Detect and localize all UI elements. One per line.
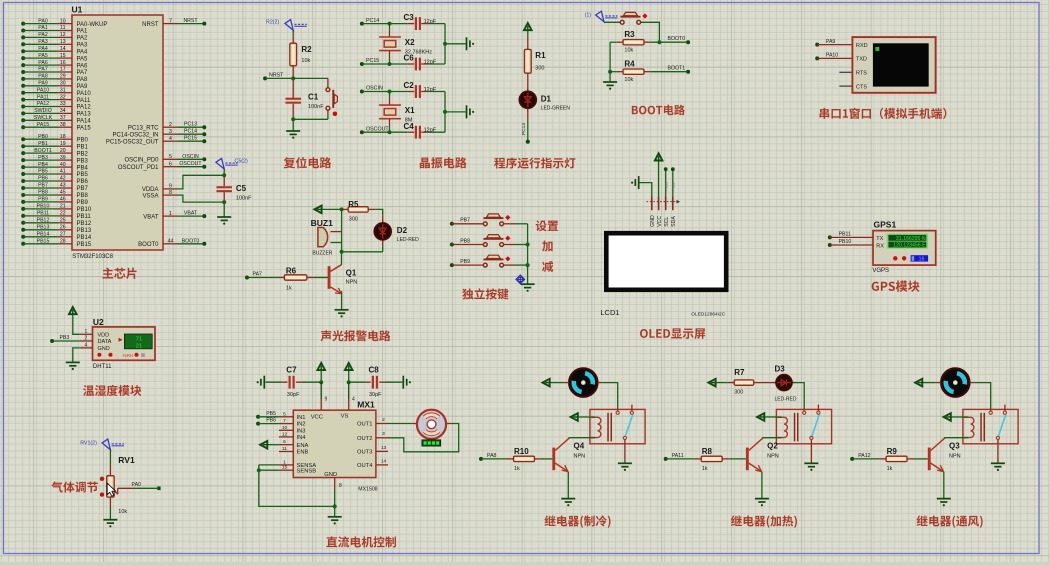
wire R4 left — [610, 71, 617, 73]
pin BOOT1 wire — [21, 151, 25, 155]
svg-text:PB1: PB1 — [38, 141, 48, 147]
net OSCOUT — [178, 166, 205, 168]
OLED pins — [651, 196, 653, 210]
capacitor C3 — [415, 17, 421, 30]
ground Q3 — [937, 499, 951, 502]
wire to ground — [445, 43, 466, 45]
svg-text:PA14: PA14 — [77, 119, 92, 125]
svg-text:PB13: PB13 — [665, 182, 669, 191]
svg-text:R2: R2 — [301, 45, 312, 54]
power arrow VCC — [317, 363, 325, 370]
svg-text:6: 6 — [169, 161, 172, 167]
svg-text:C5(2): C5(2) — [235, 158, 248, 164]
wire C8 right — [379, 381, 385, 383]
svg-text:18: 18 — [60, 134, 66, 140]
svg-text:PC13: PC13 — [521, 123, 527, 135]
capacitor C7 — [289, 376, 295, 389]
svg-text:PA4: PA4 — [77, 49, 89, 55]
capacitor C4 — [415, 126, 421, 139]
svg-text:PB0: PB0 — [77, 137, 89, 143]
svg-text:8: 8 — [169, 190, 172, 196]
pin PA10 wire — [21, 91, 25, 95]
svg-text:OSCOUT: OSCOUT — [179, 161, 202, 167]
svg-text:PA8: PA8 — [38, 74, 48, 80]
power flag R2(2) — [285, 20, 293, 31]
chip pin PC14-OSC32_IN — [163, 133, 178, 135]
svg-text:PA3: PA3 — [38, 39, 48, 45]
OLED display LCD1 — [606, 233, 726, 290]
wire C2 right — [421, 91, 428, 93]
svg-text:PA7: PA7 — [77, 70, 89, 76]
svg-text:RV1(2): RV1(2) — [80, 440, 97, 446]
svg-text:27: 27 — [60, 232, 66, 238]
wire VSSA to C5 — [178, 195, 225, 202]
svg-text:SCL: SCL — [664, 217, 670, 227]
svg-text:PB11: PB11 — [839, 232, 851, 238]
node PA11 terminal — [664, 457, 668, 461]
svg-text:PC15: PC15 — [366, 58, 379, 64]
relay RL1 — [590, 409, 645, 443]
wire R4 right / BOOT1 — [644, 71, 650, 73]
svg-text:VS: VS — [341, 414, 349, 420]
node BOOT1 terminal — [686, 70, 690, 74]
net PC15 terminal — [360, 62, 364, 66]
svg-text:ENA: ENA — [297, 443, 309, 449]
wire PA7 to R6 — [247, 277, 278, 279]
svg-text:39: 39 — [60, 155, 66, 161]
wire PB3 to DATA — [52, 340, 80, 342]
push button reset — [327, 78, 329, 87]
relay RL2 — [776, 409, 831, 443]
net OSCIN terminal — [360, 90, 364, 94]
svg-text:PB6: PB6 — [266, 418, 276, 424]
svg-text:C5: C5 — [236, 184, 247, 193]
svg-text:VCC: VCC — [657, 216, 663, 227]
crystal X1 — [389, 92, 391, 98]
svg-text:SWDIO: SWDIO — [34, 108, 52, 114]
ground RV1 — [103, 520, 117, 523]
svg-text:10k: 10k — [301, 58, 310, 64]
svg-text:DHT11: DHT11 — [93, 364, 112, 370]
svg-text:37: 37 — [60, 115, 66, 121]
svg-text:PA10: PA10 — [37, 87, 49, 93]
node R5 junction — [340, 207, 344, 211]
power arrow R5 — [314, 206, 321, 214]
pin PA4 wire — [21, 49, 25, 53]
svg-text:30pF: 30pF — [287, 392, 300, 398]
pin PA6 wire — [21, 63, 25, 67]
svg-text:21: 21 — [136, 343, 142, 349]
node PA0 terminal — [157, 487, 160, 491]
wire SDA — [672, 169, 674, 196]
svg-text:1: 1 — [169, 211, 172, 217]
pin PB12 wire — [21, 221, 25, 225]
svg-text:44: 44 — [168, 239, 174, 245]
svg-text:300: 300 — [734, 389, 743, 395]
svg-text:30pF: 30pF — [369, 392, 382, 398]
resistor R5 — [342, 208, 349, 210]
svg-text:PB8: PB8 — [460, 238, 470, 244]
wire D2 bottom — [382, 240, 384, 246]
pin SENSB — [279, 469, 293, 471]
net VBAT — [178, 215, 205, 217]
svg-text:4: 4 — [85, 342, 88, 348]
node VSSA junction — [222, 200, 226, 204]
net OSCOUT terminal — [360, 130, 364, 134]
wire C1 bottom — [292, 104, 294, 120]
wire to BOOT button — [604, 21, 620, 23]
svg-text:GND: GND — [324, 472, 337, 478]
chip pin BOOT0 — [163, 243, 178, 245]
wire PB7 to button — [452, 223, 484, 225]
wire to R1 — [527, 31, 529, 37]
relay RL3 — [963, 409, 1018, 443]
svg-text:2: 2 — [85, 336, 88, 342]
svg-text:OSCIN: OSCIN — [182, 154, 199, 160]
svg-text:PB1: PB1 — [77, 144, 89, 150]
svg-text:GND: GND — [98, 346, 110, 352]
svg-text:25: 25 — [60, 218, 66, 224]
svg-text:CTS: CTS — [856, 84, 867, 90]
svg-text:SWCLK: SWCLK — [34, 115, 53, 121]
svg-text:PA12: PA12 — [77, 105, 92, 111]
LED D1 — [527, 89, 529, 94]
wire keys bus — [527, 224, 529, 284]
svg-text:BUZ1: BUZ1 — [311, 218, 333, 228]
pin PA11 wire — [21, 98, 25, 102]
pin SWDIO wire — [21, 111, 25, 115]
label 独立按键 — [462, 288, 508, 299]
svg-text:BUZZER: BUZZER — [312, 251, 332, 257]
svg-text:31: 31 — [60, 87, 66, 93]
wire C6 right — [421, 63, 428, 65]
svg-text:PA8: PA8 — [487, 453, 497, 459]
svg-text:PB14: PB14 — [37, 232, 50, 238]
motor rpm display — [422, 440, 441, 446]
svg-text:PB3: PB3 — [60, 335, 70, 341]
power arrow coil — [571, 413, 578, 421]
wire R2 to NRST — [292, 66, 294, 98]
wire button to bus — [503, 264, 514, 266]
svg-text:PA13: PA13 — [77, 112, 92, 118]
svg-text:PC13: PC13 — [184, 122, 197, 128]
resistor R6 — [284, 275, 307, 280]
svg-text:PA2: PA2 — [38, 32, 48, 38]
svg-text:PA10: PA10 — [77, 91, 92, 97]
node PA10 terminal — [815, 56, 819, 60]
pin ENB — [279, 451, 293, 453]
wire PB6 — [258, 423, 279, 425]
pin PA9 wire — [21, 84, 25, 88]
label 串口1窗口 — [820, 108, 947, 119]
resistor R8 — [701, 456, 722, 461]
svg-text:5: 5 — [169, 154, 172, 160]
pin PA2 wire — [21, 35, 25, 39]
pin IN2 — [279, 423, 293, 425]
label 继电器(通风) — [917, 515, 983, 527]
svg-text:PB10: PB10 — [77, 207, 92, 213]
wire PB5 — [258, 416, 279, 418]
node PA9 terminal — [815, 43, 819, 47]
power flag C5(2) — [216, 158, 224, 169]
net OSCIN — [178, 158, 205, 160]
svg-text:PB8: PB8 — [77, 193, 89, 199]
resistor R7 — [734, 380, 754, 385]
svg-text:PB13: PB13 — [77, 228, 92, 234]
svg-text:1k: 1k — [887, 466, 893, 472]
pin PB10 wire — [21, 207, 25, 211]
svg-text:10k: 10k — [118, 509, 127, 515]
svg-text:VSSA: VSSA — [142, 193, 158, 199]
svg-text:D3: D3 — [775, 365, 786, 374]
svg-text:38: 38 — [60, 122, 66, 128]
svg-text:100nF: 100nF — [236, 196, 252, 202]
chip pin VSSA — [163, 194, 178, 196]
svg-text:PA9: PA9 — [826, 39, 836, 45]
svg-text:7: 7 — [169, 18, 172, 24]
wire C4 right — [421, 131, 428, 133]
svg-text:PB15: PB15 — [37, 239, 50, 245]
pin PB1 wire — [21, 144, 25, 148]
wire PC15 — [362, 63, 408, 65]
svg-text:Q3: Q3 — [949, 442, 960, 451]
label 继电器(制冷) — [544, 515, 610, 527]
svg-text:C8: C8 — [369, 365, 380, 374]
svg-text:(1): (1) — [585, 12, 592, 18]
net PC14 — [178, 133, 205, 135]
svg-text:OUT2: OUT2 — [357, 436, 372, 442]
svg-text:4: 4 — [169, 136, 172, 142]
svg-text:PB5: PB5 — [266, 411, 276, 417]
wire crystal right bus — [444, 24, 446, 64]
label 气体调节 — [51, 481, 98, 492]
node PA7 terminal — [245, 276, 249, 280]
svg-text:RXD: RXD — [856, 43, 868, 49]
svg-text:16: 16 — [918, 257, 924, 263]
svg-text:1: 1 — [85, 329, 88, 335]
svg-text:PB7: PB7 — [77, 186, 89, 192]
svg-text:PA0: PA0 — [132, 482, 142, 488]
wire coil bottom — [945, 437, 968, 439]
pin PB13 wire — [21, 228, 25, 232]
svg-text:NRST: NRST — [183, 18, 198, 24]
pin PA1 wire — [21, 29, 25, 33]
wire BOOT button right — [641, 22, 660, 42]
svg-text:13: 13 — [60, 39, 66, 45]
svg-text:C7: C7 — [286, 365, 297, 374]
svg-text:34: 34 — [60, 108, 66, 114]
ground BOOT — [603, 82, 617, 85]
svg-text:OSCIN: OSCIN — [366, 86, 383, 92]
pin OUT2 — [376, 437, 388, 439]
svg-text:C2: C2 — [404, 81, 415, 90]
label BOOT电路 — [632, 105, 685, 116]
svg-text:TXD: TXD — [856, 57, 867, 63]
svg-text:PB7: PB7 — [460, 218, 470, 224]
svg-text:41: 41 — [60, 169, 66, 175]
svg-text:12: 12 — [282, 431, 288, 437]
svg-text:LED-RED: LED-RED — [397, 237, 419, 243]
svg-text:X1: X1 — [405, 106, 415, 115]
svg-text:TX: TX — [876, 236, 883, 242]
node PA8 terminal — [479, 457, 483, 461]
wire PA9 to RXD — [817, 44, 852, 46]
wire OSCIN — [362, 91, 408, 93]
chip pin OSCIN_PD0 — [163, 158, 178, 160]
wire D1 to PC13 — [527, 109, 529, 121]
svg-text:300: 300 — [349, 217, 358, 223]
label 复位电路 — [284, 157, 332, 168]
svg-text:VDD: VDD — [98, 333, 110, 339]
wire PB8 to button — [452, 244, 484, 246]
node NRST junction — [291, 76, 295, 80]
svg-text:MX1: MX1 — [357, 400, 375, 410]
net PC13 — [178, 126, 205, 128]
label GPS模块 — [872, 280, 920, 291]
resistor R3 — [623, 40, 644, 45]
wire R3 right / BOOT0 — [644, 41, 650, 43]
power arrow — [543, 379, 550, 387]
label 设置 — [536, 220, 558, 231]
wire RV1 wiper to PA0 — [118, 487, 135, 489]
pin PB4 wire — [21, 165, 25, 169]
wire PC14 — [362, 23, 408, 25]
svg-text:PC15: PC15 — [184, 136, 197, 142]
svg-text:PA9: PA9 — [38, 81, 48, 87]
chip pin VBAT — [163, 215, 178, 217]
pin OUT3 — [376, 450, 388, 452]
svg-text:PC14: PC14 — [184, 129, 197, 135]
svg-text:PA3: PA3 — [77, 43, 89, 49]
wire collector — [762, 437, 763, 439]
svg-text:Q2: Q2 — [767, 442, 778, 451]
pin PA12 wire — [21, 105, 25, 109]
node PC13 terminal — [526, 140, 530, 144]
svg-text:R2(2): R2(2) — [266, 19, 279, 25]
svg-text:PA0-WKUP: PA0-WKUP — [77, 22, 108, 28]
ground U2 — [66, 362, 80, 365]
svg-text:100nF: 100nF — [308, 104, 324, 110]
capacitor C1 — [285, 98, 301, 104]
pin PB15 wire — [21, 242, 25, 246]
svg-text:OSCIN_PD0: OSCIN_PD0 — [124, 158, 159, 164]
transistor Q2 — [746, 448, 749, 471]
wire base — [666, 458, 695, 460]
wire PB10 to RX — [830, 244, 873, 246]
node C1 junction — [291, 117, 295, 121]
svg-text:BOOT0: BOOT0 — [182, 238, 200, 244]
svg-text:PA7: PA7 — [38, 67, 48, 73]
chip pin NRST — [163, 23, 178, 25]
pin PA3 wire — [21, 42, 25, 46]
pin PA5 wire — [21, 56, 25, 60]
svg-text:15: 15 — [60, 53, 66, 59]
pin PA7 wire — [21, 70, 25, 74]
svg-text:MX1508: MX1508 — [358, 487, 377, 493]
wire R2 top — [292, 30, 294, 36]
svg-text:PB10: PB10 — [37, 204, 50, 210]
svg-text:PA5: PA5 — [77, 56, 89, 62]
svg-text:NPN: NPN — [574, 454, 586, 460]
svg-text:PA15: PA15 — [77, 125, 92, 131]
label 减 — [542, 261, 553, 272]
net PC15 — [178, 140, 205, 142]
svg-text:PB3: PB3 — [38, 155, 48, 161]
label 程序运行指示灯 — [494, 157, 575, 168]
label 继电器(加热) — [731, 515, 797, 527]
svg-text:7: 7 — [283, 418, 286, 424]
wire crystal right bus — [444, 92, 446, 133]
label OLED显示屏 — [640, 328, 705, 339]
motor — [388, 423, 411, 425]
svg-text:R3: R3 — [624, 30, 635, 39]
wire C5 top — [223, 169, 225, 175]
svg-text:OSCOUT_PD1: OSCOUT_PD1 — [118, 165, 159, 171]
pin PB9 wire — [21, 200, 25, 204]
svg-text:NPN: NPN — [767, 454, 779, 460]
push button 加 — [484, 238, 504, 240]
svg-text:PB11: PB11 — [37, 211, 49, 217]
wire coil bottom — [763, 437, 781, 439]
svg-text:OUT1: OUT1 — [357, 422, 372, 428]
node PA12 terminal — [850, 457, 854, 461]
pin CTS stub — [839, 85, 852, 87]
virtual terminal box — [852, 37, 935, 93]
svg-text:GND: GND — [650, 215, 656, 227]
svg-text:29: 29 — [60, 74, 66, 80]
svg-text:R6: R6 — [286, 266, 297, 275]
svg-text:PA15: PA15 — [37, 122, 49, 128]
pin PB3 wire — [21, 158, 25, 162]
svg-text:45: 45 — [60, 190, 66, 196]
svg-text:PB12: PB12 — [672, 182, 676, 191]
power arrow OLED VCC — [658, 161, 660, 196]
svg-text:12: 12 — [60, 32, 66, 38]
svg-text:DATA: DATA — [98, 339, 112, 345]
svg-text:IN2: IN2 — [297, 422, 306, 428]
wire RV1 top — [109, 450, 111, 465]
svg-text:17: 17 — [60, 67, 66, 73]
svg-text:PC15-OSC32_OUT: PC15-OSC32_OUT — [106, 139, 159, 145]
ground keys — [521, 284, 535, 287]
power arrow — [915, 379, 922, 387]
svg-text:OUT3: OUT3 — [357, 450, 372, 456]
ground reset — [286, 131, 300, 134]
svg-text:26: 26 — [60, 225, 66, 231]
wire C5 bottom — [223, 192, 225, 202]
svg-text:PB6: PB6 — [77, 179, 89, 185]
chip pin VDDA — [163, 188, 178, 190]
svg-text:C3: C3 — [404, 13, 415, 22]
net BOOT0 — [178, 243, 205, 245]
node PB5 terminal — [256, 415, 260, 419]
svg-text:BOOT1: BOOT1 — [668, 66, 686, 72]
resistor R4 — [623, 69, 644, 74]
wire BOOT left bus — [609, 42, 611, 81]
chip U1 STM32F103C8 — [72, 15, 163, 250]
wire R5 down — [341, 209, 343, 251]
svg-text:2: 2 — [169, 122, 172, 128]
svg-text:PB9: PB9 — [77, 200, 89, 206]
label 温湿度模块 — [83, 385, 141, 396]
svg-text:PB9: PB9 — [460, 259, 470, 265]
wire PB9 to button — [452, 264, 484, 266]
svg-text:BOOT0: BOOT0 — [138, 242, 159, 248]
svg-text:11: 11 — [282, 446, 287, 452]
svg-text:4: 4 — [352, 397, 355, 403]
svg-text:R1: R1 — [535, 51, 546, 60]
ground relay — [991, 463, 1005, 466]
